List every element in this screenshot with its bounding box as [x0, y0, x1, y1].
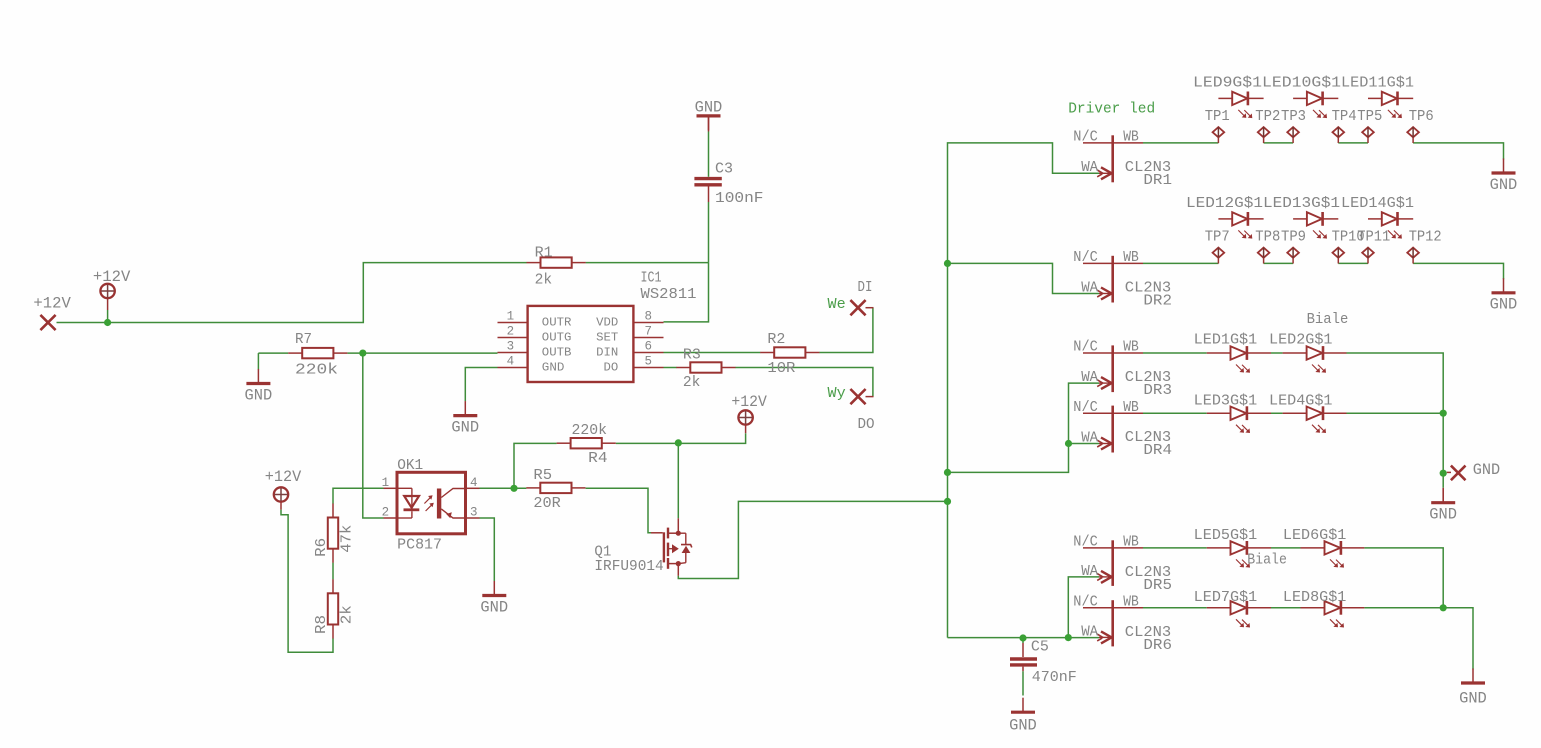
svg-text:N/C: N/C [1073, 340, 1098, 356]
svg-text:+12V: +12V [265, 468, 302, 486]
svg-text:3: 3 [507, 340, 515, 354]
svg-text:VDD: VDD [596, 316, 618, 330]
svg-text:LED7G$1: LED7G$1 [1194, 590, 1258, 606]
svg-text:GND: GND [1490, 176, 1518, 194]
svg-text:WB: WB [1123, 250, 1139, 266]
svg-text:20R: 20R [533, 496, 561, 512]
svg-text:PC817: PC817 [397, 538, 442, 554]
svg-text:220k: 220k [295, 363, 338, 379]
svg-text:R1: R1 [535, 246, 553, 262]
svg-text:WB: WB [1123, 595, 1139, 611]
svg-text:+12V: +12V [731, 393, 767, 411]
svg-text:R5: R5 [533, 468, 552, 484]
svg-text:220k: 220k [572, 423, 608, 439]
svg-text:TP12: TP12 [1409, 230, 1442, 246]
svg-text:1: 1 [507, 310, 515, 324]
svg-text:+12V: +12V [33, 295, 71, 313]
svg-text:WA: WA [1081, 370, 1098, 386]
svg-text:WA: WA [1081, 430, 1098, 446]
svg-text:DR4: DR4 [1143, 443, 1172, 459]
svg-text:N/C: N/C [1073, 535, 1098, 551]
svg-text:LED6G$1: LED6G$1 [1283, 528, 1347, 544]
svg-text:WA: WA [1081, 280, 1098, 296]
svg-text:R7: R7 [295, 332, 312, 348]
svg-text:2k: 2k [535, 272, 553, 288]
svg-text:DR6: DR6 [1143, 638, 1172, 654]
svg-text:DO: DO [604, 361, 619, 375]
svg-text:6: 6 [645, 340, 653, 354]
svg-text:DR3: DR3 [1143, 383, 1172, 399]
svg-text:LED12G$1: LED12G$1 [1186, 196, 1263, 212]
svg-text:LED14G$1: LED14G$1 [1341, 196, 1414, 212]
svg-text:WB: WB [1123, 130, 1139, 146]
svg-text:TP2: TP2 [1255, 109, 1280, 125]
svg-text:N/C: N/C [1073, 250, 1098, 266]
svg-text:10R: 10R [767, 361, 795, 377]
svg-text:2k: 2k [339, 605, 355, 624]
svg-text:WB: WB [1123, 400, 1139, 416]
svg-text:LED9G$1: LED9G$1 [1193, 76, 1262, 92]
svg-text:DO: DO [858, 417, 875, 433]
svg-text:GND: GND [1429, 506, 1457, 524]
svg-text:LED11G$1: LED11G$1 [1341, 76, 1414, 92]
svg-text:IRFU9014: IRFU9014 [594, 559, 663, 575]
svg-text:LED3G$1: LED3G$1 [1194, 393, 1258, 409]
svg-text:GND: GND [480, 598, 508, 616]
svg-text:R4: R4 [588, 451, 607, 467]
svg-text:OUTG: OUTG [542, 331, 572, 345]
svg-text:2: 2 [382, 506, 390, 520]
svg-text:IC1: IC1 [641, 271, 662, 287]
svg-text:OUTB: OUTB [542, 346, 572, 360]
svg-text:4: 4 [470, 476, 478, 490]
svg-text:LED10G$1: LED10G$1 [1262, 76, 1341, 92]
svg-text:WA: WA [1081, 624, 1098, 640]
svg-text:DR1: DR1 [1143, 173, 1172, 189]
svg-text:GND: GND [542, 361, 565, 375]
svg-text:LED13G$1: LED13G$1 [1263, 196, 1340, 212]
svg-text:LED4G$1: LED4G$1 [1269, 393, 1333, 409]
svg-text:GND: GND [451, 418, 479, 436]
svg-text:R2: R2 [767, 332, 785, 348]
svg-text:8: 8 [645, 310, 653, 324]
svg-text:TP4: TP4 [1332, 109, 1357, 125]
svg-text:DR2: DR2 [1143, 293, 1172, 309]
svg-text:C3: C3 [715, 161, 733, 177]
svg-text:Wy: Wy [828, 386, 847, 402]
svg-text:3: 3 [470, 506, 478, 520]
svg-text:N/C: N/C [1073, 400, 1098, 416]
svg-text:TP9: TP9 [1281, 230, 1306, 246]
svg-text:5: 5 [645, 355, 653, 369]
svg-text:TP3: TP3 [1281, 109, 1306, 125]
svg-text:LED2G$1: LED2G$1 [1269, 333, 1333, 349]
svg-text:Biale: Biale [1247, 552, 1287, 568]
svg-text:470nF: 470nF [1032, 670, 1077, 686]
svg-text:We: We [828, 297, 846, 313]
svg-text:47k: 47k [339, 525, 355, 553]
svg-text:2k: 2k [683, 375, 701, 391]
svg-text:TP7: TP7 [1205, 230, 1230, 246]
svg-text:OUTR: OUTR [542, 316, 572, 330]
svg-text:WA: WA [1081, 564, 1098, 580]
svg-text:GND: GND [695, 98, 723, 116]
svg-text:TP11: TP11 [1357, 230, 1390, 246]
svg-text:WA: WA [1081, 160, 1098, 176]
svg-text:LED5G$1: LED5G$1 [1194, 528, 1258, 544]
svg-text:Driver led: Driver led [1068, 102, 1155, 118]
svg-text:Biale: Biale [1307, 312, 1349, 328]
svg-text:TP5: TP5 [1357, 109, 1382, 125]
svg-text:R8: R8 [314, 615, 330, 634]
svg-text:LED1G$1: LED1G$1 [1194, 333, 1258, 349]
svg-text:TP6: TP6 [1409, 109, 1434, 125]
svg-text:TP1: TP1 [1205, 109, 1230, 125]
svg-text:GND: GND [245, 386, 273, 404]
svg-text:OK1: OK1 [397, 458, 423, 474]
svg-text:100nF: 100nF [715, 191, 764, 207]
svg-text:R3: R3 [683, 347, 701, 363]
svg-text:4: 4 [507, 355, 515, 369]
svg-text:GND: GND [1459, 690, 1487, 708]
svg-text:GND: GND [1473, 461, 1500, 479]
svg-text:R6: R6 [314, 538, 330, 557]
svg-text:N/C: N/C [1073, 130, 1098, 146]
svg-text:DR5: DR5 [1143, 578, 1172, 594]
svg-text:GND: GND [1490, 296, 1518, 314]
svg-text:7: 7 [645, 325, 653, 339]
svg-text:N/C: N/C [1073, 595, 1098, 611]
svg-text:2: 2 [507, 325, 515, 339]
svg-text:GND: GND [1009, 717, 1037, 735]
svg-text:LED8G$1: LED8G$1 [1283, 590, 1347, 606]
svg-text:1: 1 [382, 476, 390, 490]
svg-text:+12V: +12V [93, 268, 131, 286]
svg-text:SET: SET [596, 331, 618, 345]
svg-text:DIN: DIN [596, 346, 618, 360]
svg-text:WS2811: WS2811 [641, 287, 697, 303]
svg-text:WB: WB [1123, 535, 1139, 551]
svg-text:C5: C5 [1031, 639, 1049, 655]
svg-text:TP8: TP8 [1255, 230, 1280, 246]
svg-text:DI: DI [858, 280, 873, 296]
svg-text:WB: WB [1123, 340, 1139, 356]
